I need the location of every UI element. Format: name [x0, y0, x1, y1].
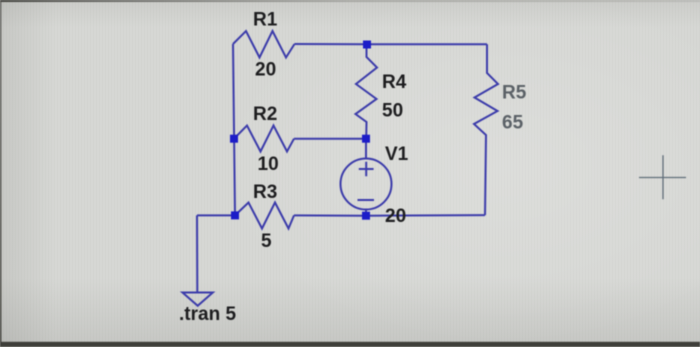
wire: R1 right to top node	[295, 43, 368, 45]
voltage source V1	[341, 139, 392, 216]
wire: left vertical rail	[233, 44, 235, 215]
svg-text:V1: V1	[385, 144, 409, 165]
junction: R2/R4/V1+ node	[362, 135, 370, 143]
junction: left rail / R2 node	[230, 135, 238, 143]
svg-text:R5: R5	[502, 83, 527, 104]
junction: left rail / R3 / ground node	[231, 211, 239, 219]
wire: ground stub horizontal	[197, 214, 235, 216]
wire: R3 right to V1 bottom node	[294, 214, 366, 216]
junction: top node (R1/R4)	[363, 41, 371, 49]
svg-text:R2: R2	[253, 104, 277, 125]
resistor R4	[356, 44, 378, 138]
svg-text:10: 10	[258, 154, 279, 175]
svg-text:.tran 5: .tran 5	[179, 304, 236, 325]
svg-text:20: 20	[385, 206, 406, 227]
svg-text:50: 50	[382, 101, 403, 122]
svg-text:R4: R4	[382, 72, 407, 93]
resistor R5	[474, 44, 498, 215]
resistor R1	[233, 31, 295, 58]
wire: ground stub vertical	[196, 215, 198, 292]
resistor R2	[234, 126, 294, 152]
wire: V1 bottom node to bottom-right corner	[366, 214, 485, 217]
svg-text:R3: R3	[253, 182, 277, 203]
cursor crosshair	[639, 155, 686, 199]
resistor R3	[235, 203, 294, 229]
svg-text:65: 65	[502, 113, 524, 134]
wire: top node to top-right corner	[367, 43, 487, 45]
junction: V1- / bottom rail node	[362, 212, 370, 220]
bottom screen bezel bar	[0, 342, 700, 347]
svg-text:20: 20	[255, 60, 276, 81]
ground	[183, 293, 213, 306]
wire: R2 right to V1 top node	[294, 138, 366, 140]
svg-text:5: 5	[261, 231, 272, 252]
svg-text:R1: R1	[253, 10, 278, 31]
